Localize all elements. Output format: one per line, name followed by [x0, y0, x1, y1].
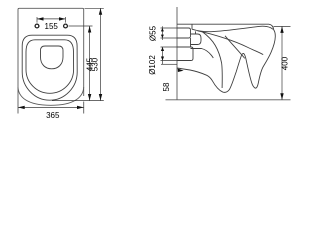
lid back step	[191, 24, 193, 29]
mounting hole right	[64, 24, 68, 28]
Ø102 dimension line	[162, 47, 164, 64]
445 arrow top	[88, 26, 91, 33]
wall line	[176, 7, 178, 100]
svg-text:530: 530	[91, 57, 100, 71]
ceramic pan outline (plan)	[18, 8, 84, 113]
365 dimension line	[18, 106, 84, 108]
bowl back interior curve	[202, 32, 222, 89]
400 arrow bottom	[280, 93, 283, 100]
155 dimension line	[37, 18, 66, 20]
lid mid seam line	[26, 40, 74, 94]
drain pipe stub	[177, 47, 193, 61]
365 arrow left	[18, 106, 25, 109]
body back face between stubs	[190, 38, 192, 47]
155 arrow left	[37, 17, 44, 20]
svg-text:Ø102: Ø102	[148, 55, 157, 75]
flush pipe stub (top)	[177, 28, 191, 38]
sump top interior line	[191, 49, 214, 59]
530 arrow bottom	[99, 94, 102, 101]
Ø55 arrow top	[161, 28, 164, 31]
530 dimension line	[100, 8, 102, 100]
svg-text:58: 58	[162, 82, 171, 91]
400 arrow top	[280, 26, 283, 33]
floor/datum baseline	[166, 99, 291, 101]
Ø102 arrow top	[161, 47, 164, 51]
Ø55 extension lines	[161, 28, 178, 38]
58 leader arrow on underside	[178, 69, 184, 73]
seat lower edge line	[192, 26, 273, 31]
svg-text:365: 365	[46, 111, 60, 120]
530 arrow top	[99, 8, 102, 15]
Ø55 arrow bottom	[161, 35, 164, 38]
lid inner panel	[41, 46, 64, 69]
lid outer outline	[22, 35, 77, 100]
rim back face tick	[195, 31, 197, 34]
155 dim extension ticks	[37, 17, 66, 23]
Ø55 dimension line	[161, 26, 163, 40]
365 arrow right	[77, 106, 84, 109]
Ø102 arrow bottom	[161, 57, 164, 61]
58 extension line (underside at wall)	[161, 63, 177, 65]
445 top extension line (from hole axis)	[69, 25, 93, 27]
155 arrow right	[59, 17, 66, 20]
body top + front face + underside profile	[177, 24, 275, 92]
445 arrow bottom	[88, 94, 91, 101]
svg-text:400: 400	[280, 56, 289, 70]
530 top extension line (from pan top edge)	[85, 7, 104, 9]
400 dimension line	[281, 26, 283, 99]
ceramic front arc	[18, 87, 84, 105]
svg-text:155: 155	[45, 22, 59, 31]
445 dimension line	[89, 26, 91, 101]
bowl front interior curve (upper diagonal)	[198, 31, 264, 55]
bottom extension line (shared 445/530)	[52, 100, 104, 102]
flush elbow inside body	[191, 34, 202, 45]
bowl inner wall (lower diagonal)	[225, 36, 245, 59]
mounting hole left	[35, 24, 39, 28]
400 top extension line	[274, 25, 291, 27]
Ø102 extension lines	[161, 47, 178, 61]
svg-text:Ø55: Ø55	[149, 25, 158, 41]
